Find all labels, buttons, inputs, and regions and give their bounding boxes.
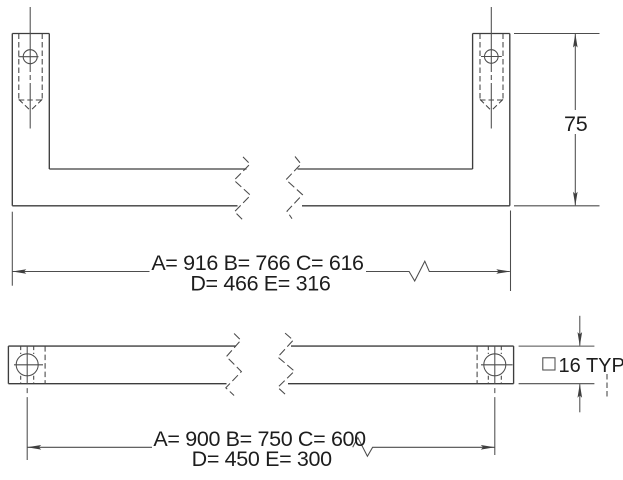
dimension 16 TYP extension line bottom xyxy=(519,383,595,385)
handle bar top edge left segment xyxy=(49,168,246,170)
dimension 75 extension line top xyxy=(514,33,600,35)
break line zigzag right (bottom view) xyxy=(278,333,295,394)
right hole circle xyxy=(484,354,506,376)
left hole centerline vertical xyxy=(26,346,28,460)
left post hidden drill hole xyxy=(19,34,42,111)
svg-text:D= 450 E= 300: D= 450 E= 300 xyxy=(192,447,332,471)
handle bar top edge right segment xyxy=(298,168,473,170)
dimension 16 TYP arrow line bottom xyxy=(579,384,581,412)
dimension 16 TYP square symbol xyxy=(543,358,555,370)
top view dimension arrow left xyxy=(12,269,26,274)
dimension 75 arrow up xyxy=(573,34,578,48)
left post cross hole circle xyxy=(23,50,37,64)
right hole center mark horizontal xyxy=(481,364,513,366)
left post centerline vertical xyxy=(29,7,31,129)
break line zigzag right (top view) xyxy=(286,157,303,219)
right post centerline vertical xyxy=(490,7,492,129)
svg-text:75: 75 xyxy=(564,112,588,136)
dimension 75 line lower segment xyxy=(574,134,576,205)
right post cross hole circle xyxy=(485,50,499,64)
top view dimension arrow right xyxy=(496,269,510,274)
left hole center mark horizontal xyxy=(14,364,43,366)
dimension 75 arrow down xyxy=(573,192,578,206)
right post center mark horizontal xyxy=(481,56,502,58)
bottom view dimension arrow left xyxy=(27,445,41,450)
bar outline right end xyxy=(288,346,514,384)
right post outline xyxy=(473,34,510,206)
top view overall dimension extension line right xyxy=(510,211,512,292)
right post hidden drill hole xyxy=(480,34,503,111)
bottom view dimension line right segment with jog xyxy=(353,438,495,457)
dimension 16 TYP extension line top xyxy=(519,345,595,347)
top view overall dimension extension line left xyxy=(11,212,13,286)
right post hidden inner face xyxy=(476,346,478,384)
bottom view dimension arrow right xyxy=(481,445,495,450)
dimension 16 TYP arrow top (pointing down) xyxy=(578,332,583,346)
handle bar bottom edge left segment xyxy=(12,205,237,207)
left hole hidden wall stubs xyxy=(21,346,34,384)
svg-text:D= 466 E= 316: D= 466 E= 316 xyxy=(190,271,330,295)
top view dimension line right segment with jog xyxy=(366,261,510,281)
top view dimension line left segment xyxy=(12,271,149,273)
right hole hidden wall stubs xyxy=(488,346,501,384)
dashed centerline stub far right xyxy=(606,374,608,397)
dimension 16 TYP arrow line top xyxy=(579,316,581,346)
left hole circle xyxy=(16,354,38,376)
break line zigzag left (bottom view) xyxy=(226,334,242,396)
left post hidden inner face xyxy=(44,346,46,384)
svg-text:16 TYP: 16 TYP xyxy=(559,355,623,377)
left post center mark horizontal xyxy=(18,56,38,58)
dimension 75 extension line bottom xyxy=(514,205,600,207)
handle bar bottom edge right segment xyxy=(302,205,510,207)
right hole centerline vertical xyxy=(494,346,496,455)
bottom view dimension line left segment xyxy=(27,446,152,448)
bar outline left end xyxy=(8,346,236,384)
dimension 16 TYP arrow bottom (pointing up) xyxy=(578,384,583,398)
dimension 75 line upper segment xyxy=(574,34,576,110)
left post outline xyxy=(12,34,49,206)
break line zigzag left (top view) xyxy=(234,157,250,221)
